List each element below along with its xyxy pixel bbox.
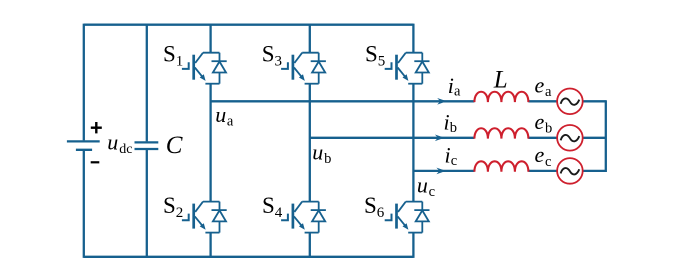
svg-text:S: S [262, 42, 275, 67]
svg-text:1: 1 [176, 54, 184, 70]
svg-text:b: b [324, 151, 331, 167]
svg-text:a: a [454, 84, 461, 100]
svg-text:L: L [493, 67, 508, 94]
svg-text:dc: dc [119, 142, 132, 157]
svg-text:4: 4 [275, 205, 283, 221]
svg-text:S: S [262, 193, 275, 218]
svg-text:u: u [107, 130, 118, 155]
svg-text:S: S [163, 42, 176, 67]
svg-text:e: e [535, 109, 545, 134]
svg-text:C: C [166, 132, 183, 159]
svg-text:S: S [163, 193, 176, 218]
svg-text:a: a [545, 84, 552, 100]
svg-text:S: S [364, 193, 377, 218]
svg-text:6: 6 [377, 205, 385, 221]
svg-text:c: c [545, 154, 551, 170]
svg-text:c: c [429, 184, 435, 200]
svg-text:S: S [365, 42, 378, 67]
svg-text:e: e [535, 73, 545, 98]
svg-text:i: i [448, 73, 454, 98]
svg-text:5: 5 [378, 54, 386, 70]
svg-text:b: b [545, 121, 552, 137]
svg-text:u: u [312, 140, 323, 165]
svg-text:a: a [227, 114, 234, 130]
svg-text:2: 2 [176, 205, 184, 221]
svg-text:u: u [215, 102, 226, 127]
svg-text:u: u [417, 173, 428, 198]
svg-text:b: b [450, 120, 457, 136]
svg-text:c: c [451, 153, 457, 169]
svg-text:e: e [535, 142, 545, 167]
svg-text:3: 3 [275, 54, 283, 70]
